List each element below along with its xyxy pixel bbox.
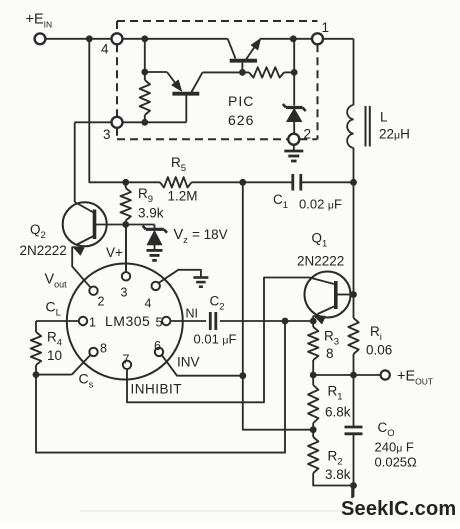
svg-text:6.8k: 6.8k (325, 405, 351, 420)
svg-text:R1: R1 (328, 384, 343, 403)
svg-text:1: 1 (322, 20, 330, 35)
svg-text:0.01 μF: 0.01 μF (194, 332, 237, 347)
svg-text:2: 2 (304, 127, 312, 142)
svg-text:CL: CL (46, 299, 61, 319)
svg-text:+EOUT: +EOUT (397, 369, 433, 387)
svg-text:INHIBIT: INHIBIT (131, 382, 183, 397)
svg-text:R9: R9 (138, 186, 153, 205)
svg-text:8: 8 (326, 346, 334, 361)
svg-text:R4: R4 (47, 330, 62, 349)
svg-text:626: 626 (228, 112, 254, 128)
svg-text:V+: V+ (106, 245, 123, 260)
svg-text:= 18V: = 18V (192, 227, 228, 242)
svg-text:0.025Ω: 0.025Ω (375, 455, 418, 470)
svg-text:C2: C2 (210, 294, 225, 313)
svg-text:3.8k: 3.8k (325, 467, 351, 482)
svg-text:4: 4 (145, 297, 152, 311)
svg-text:CO: CO (378, 420, 395, 439)
svg-text:4: 4 (101, 42, 109, 57)
svg-text:Q1: Q1 (312, 231, 328, 250)
svg-text:+EIN: +EIN (26, 12, 53, 30)
svg-text:7: 7 (123, 353, 130, 367)
svg-text:0.02 μF: 0.02 μF (299, 197, 342, 212)
svg-text:8: 8 (100, 342, 107, 356)
svg-text:22μH: 22μH (379, 127, 410, 142)
svg-text:3: 3 (121, 286, 128, 300)
svg-text:R3: R3 (324, 329, 339, 348)
svg-text:2N2222: 2N2222 (20, 243, 67, 258)
svg-text:240μ F: 240μ F (375, 440, 414, 455)
svg-text:NI: NI (186, 307, 199, 321)
svg-text:R5: R5 (171, 155, 186, 174)
svg-text:C1: C1 (273, 192, 288, 211)
svg-text:SeekIC.com: SeekIC.com (341, 498, 456, 520)
svg-text:Ri: Ri (370, 324, 382, 343)
svg-text:INV: INV (177, 355, 200, 370)
svg-text:1: 1 (89, 316, 96, 330)
svg-text:10: 10 (47, 348, 62, 363)
svg-text:Q2: Q2 (30, 222, 46, 241)
svg-text:LM305: LM305 (105, 313, 150, 329)
svg-text:L: L (380, 110, 388, 125)
svg-text:2: 2 (98, 295, 105, 309)
svg-text:Vz: Vz (174, 227, 189, 246)
svg-text:3: 3 (103, 127, 111, 142)
svg-text:3.9k: 3.9k (138, 206, 164, 221)
svg-text:2N2222: 2N2222 (297, 254, 344, 269)
svg-text:6: 6 (154, 339, 161, 353)
svg-text:Cs: Cs (79, 371, 94, 391)
svg-text:5: 5 (156, 316, 163, 330)
svg-text:R2: R2 (328, 449, 343, 468)
svg-text:Vout: Vout (45, 272, 68, 290)
svg-text:PIC: PIC (228, 93, 254, 109)
svg-text:0.06: 0.06 (366, 343, 392, 358)
svg-text:1.2M: 1.2M (168, 189, 198, 204)
